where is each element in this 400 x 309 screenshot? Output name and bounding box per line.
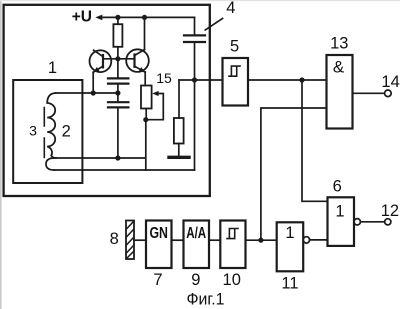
junction dot mid capacitors [115, 90, 120, 95]
svg-text:14: 14 [381, 73, 399, 91]
svg-text:7: 7 [153, 271, 162, 289]
wire VT1 emitter down [92, 72, 94, 93]
junction dot emitter-coil [91, 90, 96, 95]
label 13 [330, 35, 348, 53]
wire block 9 to block 10 [209, 239, 220, 241]
block 6 (OR) [328, 197, 355, 246]
potentiometer 15 [141, 86, 163, 120]
label 1 of block 6 [335, 203, 344, 221]
block 13 (AND) [327, 55, 353, 129]
svg-text:8: 8 [110, 230, 119, 248]
caption [187, 291, 225, 309]
wire resistor R2 to ground [178, 144, 180, 157]
label 12 [381, 202, 399, 220]
wire pot bottom to rails [145, 109, 147, 120]
label 6 [333, 177, 342, 195]
svg-text:1: 1 [285, 224, 294, 242]
label 7 [153, 271, 162, 289]
svg-text:13: 13 [330, 35, 348, 53]
label 4 [226, 0, 235, 17]
block 7 (GN) [146, 221, 172, 269]
inductor winding 2 [47, 93, 56, 158]
svg-text:GN: GN [149, 225, 168, 242]
wire node B up to block 13 second input [261, 108, 327, 240]
wire rail B up to output node [194, 80, 196, 170]
wire capacitor 4 bottom to junction [194, 42, 196, 80]
label 5 [230, 38, 239, 56]
wire rail corner down to capacitor 4 [194, 17, 196, 35]
svg-text:A/A: A/A [186, 225, 206, 242]
wire node A down to block 6 input [302, 80, 328, 201]
resistor R2 [174, 118, 184, 144]
label 2 [62, 123, 71, 141]
junction node base [115, 56, 120, 61]
svg-text:5: 5 [230, 38, 239, 56]
transistor VT1 [90, 50, 118, 72]
capacitor C4 [184, 35, 205, 42]
wire bottom rail A [54, 157, 146, 159]
svg-text:1: 1 [335, 203, 344, 221]
core 3 [43, 108, 45, 158]
wire rail to resistor R1 [117, 17, 119, 24]
block 10 (Schmitt trigger) [220, 221, 245, 269]
svg-text:15: 15 [156, 70, 172, 86]
svg-text:+U: +U [72, 9, 92, 26]
inversion bubble block 11 [303, 237, 309, 243]
capacitor C2 [108, 102, 128, 107]
wire bottom rail B [54, 169, 195, 171]
svg-text:Фиг.1: Фиг.1 [187, 291, 225, 309]
wire VT2 emitter to potentiometer [144, 72, 146, 86]
wire VT2 collector to +U rail [144, 17, 146, 49]
block 9 (A/A) [184, 221, 210, 269]
label 3 [29, 123, 37, 139]
ground [169, 156, 189, 159]
hysteresis symbol block 10 [227, 229, 238, 239]
capacitor C1 [108, 78, 128, 83]
wire block 6 to terminal 12 [360, 221, 384, 223]
U-bend coil return [46, 158, 54, 170]
svg-text:12: 12 [381, 202, 399, 220]
inversion bubble block 6 [354, 219, 360, 225]
resistor R1 [113, 24, 122, 47]
label GN [149, 225, 168, 242]
svg-text:3: 3 [29, 123, 37, 139]
wire C1 to mid junction [117, 84, 119, 93]
terminal 14 [385, 90, 392, 97]
terminal 12 [385, 219, 391, 225]
junction dot pot wiper [143, 117, 148, 122]
wire +U rail [101, 16, 195, 18]
scan edge shading [0, 0, 2, 309]
wire C2 down to bottom rail [117, 107, 119, 158]
wire resistor R1 to base node [117, 47, 119, 79]
svg-text:2: 2 [62, 123, 71, 141]
pointer line for label 4 [205, 18, 222, 30]
wire pot node down to rail B [145, 120, 147, 170]
label 11 [281, 275, 298, 293]
junction dot node A [299, 77, 304, 82]
wire mid junction to capacitor C2 [117, 93, 119, 102]
wire block 11 to block 6 [310, 239, 328, 241]
svg-text:11: 11 [281, 275, 298, 293]
label 10 [223, 271, 241, 289]
junction dot node B [258, 238, 263, 243]
wire coil top to emitter node [56, 92, 118, 94]
wire output node to resistor R2 [179, 79, 223, 81]
svg-text:10: 10 [223, 271, 241, 289]
junction dot on +U rail (resistor R1) [115, 15, 120, 20]
junction dot bottom rail [115, 155, 120, 160]
svg-text:&: & [333, 58, 345, 77]
wire block 5 to block 13 [248, 79, 327, 81]
label 15 [156, 70, 172, 86]
wire resistor R2 top [178, 80, 180, 118]
object 8 (hatched) [126, 221, 134, 260]
svg-text:6: 6 [333, 177, 342, 195]
svg-text:1: 1 [48, 59, 57, 77]
sensor box 1 [13, 80, 82, 183]
label 8 [110, 230, 119, 248]
svg-text:9: 9 [191, 271, 200, 289]
wire block 7 to block 9 [172, 239, 184, 241]
+U supply arrow [95, 15, 102, 21]
label 9 [191, 271, 200, 289]
transistor VT2 [118, 49, 149, 72]
label A/A [186, 225, 206, 242]
junction dot output node [192, 77, 197, 82]
label 14 [381, 73, 399, 91]
wire 8 to block 7 [134, 239, 146, 241]
svg-text:4: 4 [226, 0, 235, 17]
label & of block 13 [333, 58, 345, 77]
wire block 10 to block 11 [246, 239, 277, 241]
wire block 13 output [353, 92, 385, 94]
label +U [72, 9, 92, 26]
hysteresis symbol block 5 [229, 66, 240, 76]
generator block box 4 [4, 5, 210, 196]
junction dot on +U rail (VT2 collector) [142, 15, 147, 20]
label 1 of block 11 [285, 224, 294, 242]
block 11 [277, 222, 304, 271]
label 1 [48, 59, 57, 77]
block 5 (Schmitt trigger) [223, 58, 249, 106]
